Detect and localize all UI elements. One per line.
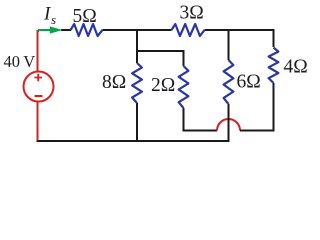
wire: red lead from source bottom to bottom-left corner [37, 102, 39, 141]
voltage source minus sign [35, 95, 43, 97]
voltage source V1 40V circle [24, 72, 54, 102]
resistor R6 4-ohm (vertical) [269, 48, 279, 84]
wire: top rail right segment (3-ohm to top-right corner, down to 4-ohm) [205, 29, 274, 47]
resistor R2 3-ohm (horizontal) [172, 24, 205, 36]
svg-text:5Ω: 5Ω [73, 6, 97, 27]
svg-text:8Ω: 8Ω [102, 72, 126, 93]
wire: 2-ohm top stub from 8-ohm branch [136, 50, 184, 66]
resistor R4 2-ohm (vertical) [179, 66, 189, 108]
voltage source plus sign [35, 74, 43, 81]
svg-text:2Ω: 2Ω [151, 75, 175, 96]
wire: 6-ohm branch bottom [228, 104, 230, 142]
wire: top rail middle segment (5-ohm to 3-ohm, node at 8-ohm branch) [103, 29, 172, 31]
current arrow Is (green) [38, 29, 51, 31]
wire: red lead from source top to top-left corner [38, 31, 40, 71]
resistor R3 8-ohm (vertical) [132, 63, 142, 103]
wire: 6-ohm branch top [228, 29, 230, 60]
wire: 8-ohm branch bottom [136, 103, 138, 142]
wire: 2-ohm branch bottom [183, 108, 185, 132]
svg-text:40 V: 40 V [4, 52, 36, 71]
wire: crossover hop (no connection) over 6-ohm branch [217, 119, 240, 131]
resistor R1 5-ohm (horizontal) [71, 24, 103, 36]
svg-text:s: s [51, 12, 56, 27]
wire: bottom rail [37, 140, 230, 142]
wire: 8-ohm branch top [136, 29, 138, 63]
svg-text:6Ω: 6Ω [237, 72, 261, 93]
wire: link crossover to 4-ohm bottom [240, 83, 274, 132]
resistor R5 6-ohm (vertical) [224, 60, 234, 104]
wire: link 2-ohm bottom to crossover [184, 130, 218, 132]
svg-text:4Ω: 4Ω [284, 57, 308, 78]
wire: top rail left segment (arrow exit to 5-ohm) [61, 29, 71, 31]
svg-text:3Ω: 3Ω [180, 3, 204, 24]
